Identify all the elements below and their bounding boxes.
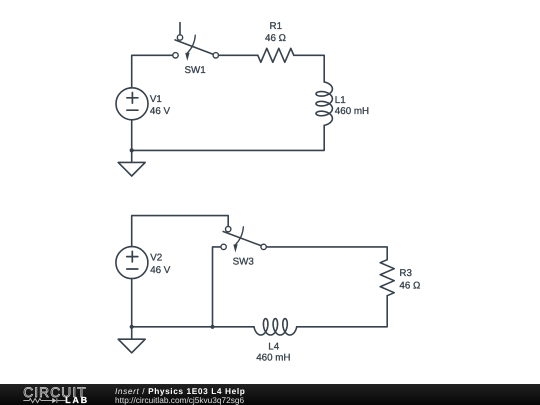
switch SW1 [173,23,219,61]
inductor L4 [254,319,297,335]
svg-text:R3: R3 [399,268,412,279]
svg-text:46 V: 46 V [150,106,171,117]
wire: SW3 right terminal to top-right corner down to R3 [266,247,387,260]
resistor R3 [380,260,394,296]
svg-text:LAB: LAB [65,395,89,405]
svg-text:SW3: SW3 [233,257,255,268]
svg-text:460 mH: 460 mH [256,352,290,363]
wire: R1 to top-right corner down to L1 [294,55,324,82]
wire: V1 top lead up and right to SW1 left terminal [132,55,173,88]
footer bar [0,384,540,405]
footer url text [115,395,244,405]
ground (top circuit) [118,150,145,176]
node junction at V2 bottom [130,325,134,329]
svg-text:46 Ω: 46 Ω [399,280,420,291]
node junction at V1 bottom [130,148,134,152]
wire: SW1 right terminal to R1 [219,54,258,56]
node junction at SW3 branch and bottom rail [210,325,214,329]
svg-text:L4: L4 [268,342,279,353]
logo resistor + diode squiggle [23,398,66,403]
svg-text:460 mH: 460 mH [335,106,369,117]
CircuitLab logo [0,384,110,405]
inductor L1 [316,82,332,125]
ground (bottom circuit) [118,327,145,353]
wire: V2 top lead up and right to SW3 top terminal [132,216,229,247]
voltage source V2 [116,247,148,279]
svg-text:V2: V2 [150,253,162,264]
wire: bottom rail from L4 to V2 bottom [132,326,254,328]
svg-text:V1: V1 [150,94,162,105]
footer title text [115,386,245,396]
svg-text:R1: R1 [270,21,283,32]
svg-text:SW1: SW1 [185,65,206,76]
svg-text:46 Ω: 46 Ω [265,33,286,44]
wire: R3 bottom lead down to bottom rail corner [297,296,388,327]
switch SW3 [221,226,266,252]
wire: L1 bottom down and left along circuit bottom [132,125,325,150]
svg-text:L1: L1 [335,95,346,106]
wire: V2 bottom lead [131,279,133,327]
wire: V1 bottom lead [131,120,133,151]
resistor R1 [258,48,294,62]
voltage source V1 [116,88,148,120]
wire: SW3 left terminal bend down to bottom rail [213,247,221,327]
svg-text:46 V: 46 V [150,265,171,276]
